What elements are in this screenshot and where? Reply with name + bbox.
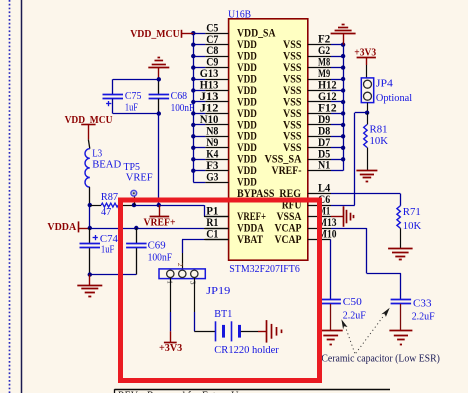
svg-text:C69: C69: [148, 239, 166, 251]
svg-text:10K: 10K: [403, 220, 422, 232]
svg-text:Optional: Optional: [376, 92, 412, 104]
svg-text:R71: R71: [403, 206, 421, 218]
svg-text:2: 2: [176, 263, 185, 267]
svg-text:CR1220 holder: CR1220 holder: [214, 344, 279, 356]
svg-text:1uF: 1uF: [101, 244, 115, 256]
svg-text:VDD_MCU: VDD_MCU: [130, 28, 180, 40]
svg-text:1uF: 1uF: [125, 102, 138, 114]
svg-text:VCAP: VCAP: [275, 232, 302, 246]
svg-text:VREF+: VREF+: [144, 216, 176, 228]
svg-text:BT1: BT1: [214, 308, 232, 320]
svg-text:3: 3: [189, 281, 198, 285]
svg-text:C50: C50: [343, 296, 362, 308]
svg-text:STM32F207IFT6: STM32F207IFT6: [229, 263, 300, 275]
svg-text:10K: 10K: [370, 135, 389, 147]
svg-text:VDDA: VDDA: [47, 221, 76, 233]
svg-text:47: 47: [101, 206, 112, 218]
svg-text:N1: N1: [318, 159, 330, 172]
svg-text:JP19: JP19: [206, 285, 230, 297]
svg-text:2.2uF: 2.2uF: [343, 309, 366, 321]
svg-text:G3: G3: [206, 170, 218, 183]
svg-text:C68: C68: [171, 90, 188, 102]
svg-text:100nF: 100nF: [148, 252, 173, 264]
svg-text:U16B: U16B: [228, 9, 251, 21]
svg-text:R81: R81: [370, 124, 388, 136]
svg-text:VBAT: VBAT: [237, 232, 263, 246]
svg-text:+3V3: +3V3: [354, 46, 376, 58]
svg-text:BEAD: BEAD: [92, 158, 121, 170]
svg-text:Ceramic capacitor (Low ESR): Ceramic capacitor (Low ESR): [321, 354, 440, 365]
svg-text:100nF: 100nF: [171, 102, 195, 114]
svg-text:JP4: JP4: [376, 77, 394, 89]
svg-text:1: 1: [165, 280, 174, 284]
svg-text:C1: C1: [206, 228, 218, 241]
svg-text:VREF-: VREF-: [272, 163, 302, 177]
svg-text:2.2uF: 2.2uF: [412, 310, 435, 322]
svg-text:C75: C75: [125, 90, 141, 102]
svg-text:VREF: VREF: [126, 171, 153, 183]
svg-text:+3V3: +3V3: [159, 342, 183, 354]
svg-text:R87: R87: [101, 191, 119, 203]
svg-text:C33: C33: [413, 297, 432, 309]
